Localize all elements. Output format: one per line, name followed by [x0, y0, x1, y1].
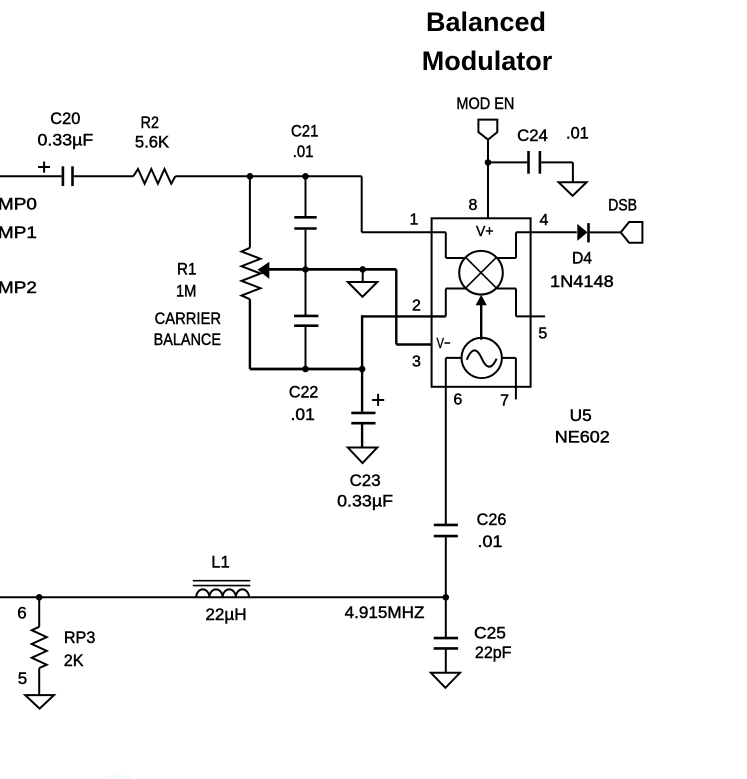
svg-text:0.33µF: 0.33µF — [38, 131, 94, 150]
svg-text:.01: .01 — [566, 123, 589, 142]
svg-text:C21: C21 — [291, 122, 318, 141]
svg-text:3: 3 — [412, 354, 421, 371]
svg-text:MOD EN: MOD EN — [456, 94, 514, 113]
svg-text:1M: 1M — [176, 281, 196, 300]
svg-text:Modulator: Modulator — [422, 46, 553, 76]
svg-text:8: 8 — [469, 197, 478, 214]
svg-text:.01: .01 — [478, 532, 503, 551]
svg-text:DSB: DSB — [608, 195, 637, 214]
svg-text:C20: C20 — [50, 109, 80, 128]
svg-text:22µH: 22µH — [205, 605, 246, 624]
svg-text:22pF: 22pF — [475, 643, 512, 662]
svg-text:5.6K: 5.6K — [135, 133, 170, 152]
svg-text:0.33µF: 0.33µF — [337, 492, 393, 511]
svg-text:Balanced: Balanced — [426, 7, 546, 37]
svg-text:2: 2 — [412, 298, 421, 315]
svg-text:5: 5 — [18, 669, 27, 688]
svg-text:4.915MHZ: 4.915MHZ — [345, 603, 425, 622]
svg-text:V+: V+ — [476, 223, 494, 240]
svg-text:NE602: NE602 — [555, 428, 610, 447]
svg-text:1: 1 — [410, 212, 419, 229]
svg-text:R1: R1 — [177, 259, 196, 278]
svg-text:.01: .01 — [291, 405, 315, 424]
svg-text:BALANCE: BALANCE — [154, 330, 221, 349]
svg-text:1N4148: 1N4148 — [550, 272, 614, 291]
svg-text:C23: C23 — [350, 471, 381, 490]
svg-text:C26: C26 — [477, 510, 507, 529]
svg-text:4: 4 — [540, 212, 549, 229]
svg-text:R2: R2 — [141, 113, 160, 132]
svg-text:C22: C22 — [289, 382, 319, 401]
svg-text:V−: V− — [437, 335, 451, 352]
svg-text:C24: C24 — [517, 126, 548, 145]
svg-text:C25: C25 — [474, 624, 506, 643]
svg-text:MP0: MP0 — [0, 194, 37, 213]
svg-text:D4: D4 — [572, 249, 592, 268]
svg-text:2K: 2K — [64, 651, 84, 670]
svg-text:6: 6 — [17, 604, 26, 623]
svg-text:L1: L1 — [211, 553, 230, 572]
svg-text:CARRIER: CARRIER — [155, 309, 221, 328]
svg-text:MP2: MP2 — [0, 278, 37, 297]
svg-text:.01: .01 — [293, 142, 314, 161]
svg-text:5: 5 — [538, 325, 547, 342]
svg-text:U5: U5 — [570, 406, 592, 425]
svg-text:MP1: MP1 — [0, 223, 37, 242]
svg-text:6: 6 — [453, 392, 462, 409]
svg-text:7: 7 — [500, 392, 509, 409]
svg-text:RP3: RP3 — [64, 628, 96, 647]
